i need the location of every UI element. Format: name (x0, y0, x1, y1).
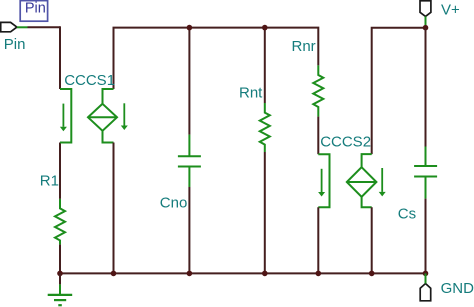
wire: Rnt top drop (264, 28, 266, 103)
op CCCS2 control arrow (318, 169, 325, 197)
pin lead (green) to port GND (425, 273, 427, 283)
op CCCS1 output arrow (121, 103, 128, 130)
wire: top rail of noise net (x 113.5 to 318.3) (114, 28, 319, 89)
wire: Rnt bottom drop (264, 152, 266, 273)
svg-text:Cs: Cs (398, 206, 416, 223)
svg-text:Pin: Pin (25, 1, 46, 17)
svg-text:GND: GND (441, 280, 474, 297)
svg-text:CCCS1: CCCS1 (64, 72, 115, 89)
wire: CCCS2 left bottom to GND rail (317, 207, 319, 273)
net label box Pin (20, 1, 47, 22)
wire: V+ rail (372, 28, 426, 154)
pin lead (green) from port Pin (17, 26, 28, 28)
svg-text:R1: R1 (40, 172, 59, 189)
wire: CCCS2 diamond bottom to GND rail (371, 207, 373, 273)
resistor Rnr (313, 65, 323, 116)
wire: Cno top drop (188, 28, 190, 135)
wire: CCCS1 diamond bottom to GND rail (113, 143, 115, 274)
wire: corner down to CCCS1 left pin (59, 26, 61, 89)
wire: Cs bottom drop (425, 199, 427, 274)
node: junction dot GND at CCCS2 right (369, 271, 375, 277)
op CCCS1 diamond branch (88, 89, 117, 143)
capacitor Cs (414, 147, 437, 199)
op CCCS2 output arrow (379, 168, 386, 196)
port Pin (1, 22, 17, 31)
wire: R1 bottom to GND rail (59, 245, 61, 274)
wire: Pin port to corner (28, 26, 61, 28)
resistor R1 (55, 199, 65, 245)
svg-text:Rnt: Rnt (239, 84, 263, 101)
svg-text:Rnr: Rnr (292, 38, 316, 55)
wire: CCCS1 left pin bottom to R1 (59, 143, 61, 199)
op CCCS1 control branch (60, 89, 71, 143)
node: junction dot GND at R1 (57, 271, 63, 277)
wire: Rnr bottom to CCCS2 left pin (317, 117, 319, 155)
svg-text:CCCS2: CCCS2 (320, 133, 371, 150)
node: junction dot GND at Cno (187, 271, 193, 277)
wire: GND bottom rail (60, 272, 426, 274)
pin lead (green) from port V+ (425, 16, 427, 27)
op CCCS2 control branch (318, 154, 329, 207)
node: junction dot GND at CCCS2 left (316, 271, 322, 277)
svg-text:V+: V+ (441, 2, 460, 19)
op CCCS1 control arrow (60, 104, 67, 132)
node: junction dot GND at CCCS1 (111, 271, 117, 277)
node: junction dot GND at Rnt (262, 271, 268, 277)
node: junction dot top rail at Cno (187, 25, 193, 31)
node: junction dot V+ (423, 25, 429, 31)
port V+ (420, 1, 431, 17)
wire: Cno bottom drop (188, 187, 190, 273)
op CCCS2 diamond branch (347, 154, 377, 207)
port GND (420, 284, 431, 301)
svg-text:Cno: Cno (160, 195, 188, 212)
node: junction dot GND at Cs (423, 271, 429, 277)
svg-text:Pin: Pin (4, 36, 26, 53)
node: junction dot top rail at Rnt (262, 25, 268, 31)
resistor Rnt (260, 103, 270, 152)
capacitor Cno (178, 135, 201, 187)
ground (48, 273, 72, 305)
wire: Cs top drop (425, 28, 427, 147)
